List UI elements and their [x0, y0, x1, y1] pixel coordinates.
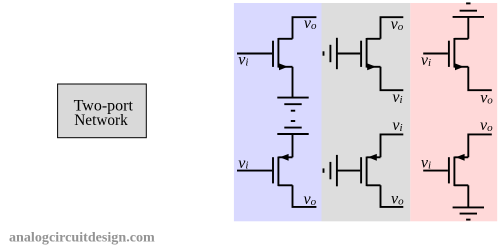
wire: drain to supply ground (top SF): [467, 17, 469, 39]
wire: ground to gate (bottom CG): [337, 170, 360, 172]
two-port network box: [58, 84, 147, 138]
wire: input to gate (bottom SF): [423, 170, 448, 172]
svg-text:analogcircuitdesign.com: analogcircuitdesign.com: [9, 230, 155, 246]
wire: ground to gate (top CG): [337, 53, 360, 55]
AC ground at gate (bottom CG): [324, 155, 337, 186]
transistor M2 (PMOS common source): [273, 154, 293, 186]
wire: drain to output (bottom CG): [381, 185, 404, 207]
wire: source to output (bottom SF): [468, 134, 492, 157]
wire: source to output (top SF): [468, 67, 492, 90]
panel source follower (pink): [410, 3, 497, 221]
wire: drain to output (top CS): [293, 17, 317, 39]
supply ground (bottom CS): [277, 121, 308, 134]
wire: source to top supply ground (bottom CS): [292, 134, 294, 157]
wire: drain to ground (bottom SF): [467, 185, 469, 207]
wire: source to ground (top CS): [292, 67, 294, 98]
transistor M1 (NMOS common source): [273, 38, 293, 70]
ground (top CS): [277, 98, 308, 111]
transistor M3 (NMOS common gate): [361, 38, 380, 70]
AC ground at gate (top CG): [324, 38, 337, 69]
wire: drain to output (top CG): [381, 17, 404, 39]
panel common gate (gray): [322, 3, 411, 221]
wire: input to gate (top CS): [237, 53, 272, 55]
wire: drain to output (bottom CS): [293, 185, 317, 207]
svg-text:Network: Network: [74, 112, 128, 129]
wire: source to input (bottom CG): [381, 134, 404, 157]
wire: input to gate (bottom CS): [237, 170, 272, 172]
transistor M4 (PMOS common gate): [361, 154, 380, 186]
transistor M6 (PMOS source follower): [449, 154, 468, 186]
supply ground above (top SF): [453, 3, 484, 17]
transistor M5 (NMOS source follower): [449, 38, 468, 70]
wire: source to input (top CG): [381, 67, 404, 90]
panel common source (blue): [234, 3, 322, 221]
ground below (bottom SF): [453, 207, 484, 219]
wire: input to gate (top SF): [423, 53, 448, 55]
